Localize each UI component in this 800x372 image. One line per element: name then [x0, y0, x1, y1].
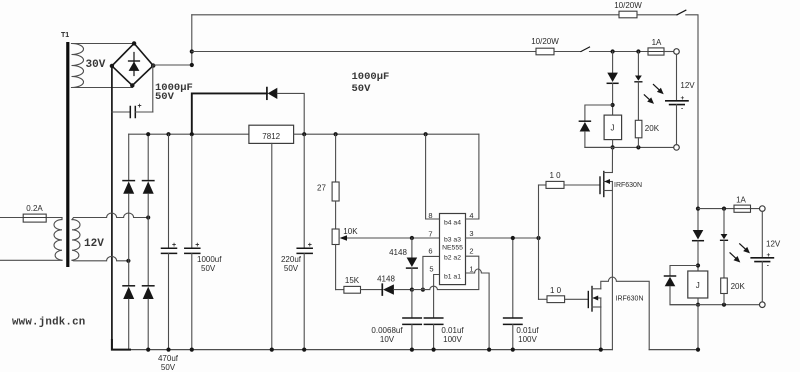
wire: fuse F2 to terminal [664, 51, 674, 53]
wire: ch2 top rail [698, 208, 760, 210]
wire: ch2 lower rail [670, 304, 760, 306]
junction bus 7812 gnd [270, 348, 274, 352]
diode D11 7812 bypass [192, 88, 304, 135]
diode D9 ch2 flyback [665, 266, 699, 305]
wire: pin7 to 10K wiper arrow [340, 235, 440, 241]
wire: gate riser vertical [538, 185, 540, 299]
junction bridge top vertex [132, 41, 136, 45]
svg-text:100V: 100V [443, 335, 462, 344]
svg-text:3: 3 [469, 229, 473, 238]
potentiometer R4 10K [332, 229, 339, 290]
resistor R5 20K ch1 [635, 120, 642, 138]
junction ch1 diode branch [611, 49, 615, 53]
junction ch2 top rail [696, 207, 700, 211]
junction pin7 node at 4148 [410, 236, 414, 240]
timer U1 NE555 [440, 214, 466, 285]
svg-text:+: + [767, 252, 771, 259]
svg-text:27: 27 [317, 184, 326, 193]
svg-text:50V: 50V [161, 363, 176, 372]
wire: +30V vertical riser [191, 15, 193, 65]
svg-text:5: 5 [429, 265, 433, 274]
wire: pin4 riser to bus [466, 134, 479, 219]
capacitor C4 220uf 50V [297, 134, 312, 349]
svg-text:+: + [195, 242, 199, 249]
wire: 12V secondary bottom lead with hop [72, 256, 128, 260]
junction bus C7 [511, 348, 515, 352]
transistor Q1 IRF630N [600, 172, 612, 197]
junction ch1 rail at 20K [636, 145, 640, 149]
capacitor C1 1000uF 50V plates [112, 103, 153, 118]
svg-text:12V: 12V [766, 240, 781, 249]
terminal ch2 negative [760, 302, 766, 308]
LED D10 emission arrows [730, 244, 750, 263]
wire: switch S1 to right corner [686, 15, 698, 209]
wire: +12V bus y134 right of 7812 [294, 133, 479, 135]
wire: relay K1 bottom lead [612, 140, 614, 148]
capacitor C5 0.0068uf 10V [403, 290, 421, 350]
svg-text:4148: 4148 [377, 275, 395, 284]
svg-text:J: J [696, 281, 700, 290]
terminal ch1 negative [674, 145, 680, 151]
wire: Q2 source to ground bus [600, 307, 602, 350]
junction bus at pin8 riser [424, 132, 428, 136]
wire: threshold node to pin2 riser with hop over pin5 [412, 256, 479, 289]
svg-text:0.2A: 0.2A [26, 204, 43, 213]
junction +30V at y51 [190, 49, 194, 53]
wire: Q1 drain to ch1 rail [611, 147, 613, 172]
svg-text:6: 6 [428, 247, 432, 256]
relay K1 coil box J [604, 115, 622, 140]
svg-text:1 0: 1 0 [550, 286, 562, 295]
junction bridge left vertex [110, 64, 114, 68]
junction bus col2 [146, 348, 150, 352]
transformer T1 core [66, 42, 69, 267]
junction bridge right vertex [151, 63, 155, 67]
svg-text:15K: 15K [345, 276, 360, 285]
junction ch1 LED branch [636, 49, 640, 53]
wire: pin1 to ground with hop over pin2 riser [466, 269, 490, 350]
diode D1 bridge column1 top [123, 134, 134, 286]
junction bus ch2 rail drop [696, 348, 700, 352]
svg-text:4148: 4148 [389, 248, 407, 257]
resistor R6 20K ch2 [721, 278, 728, 294]
resistor R7 15K [336, 286, 361, 293]
junction bus 220uf [302, 348, 306, 352]
svg-text:b1 a1: b1 a1 [444, 274, 461, 281]
junction 12V AC2 at column1 [126, 259, 130, 263]
capacitor C2 470uf 50V [162, 134, 177, 349]
battery BT1 12V ch1 [666, 54, 688, 144]
svg-text:+: + [172, 242, 176, 249]
wire: 30V bottom terminal to bridge bottom vertex [72, 86, 133, 88]
svg-text:100V: 100V [518, 335, 537, 344]
svg-text:IRF630N: IRF630N [614, 182, 642, 189]
svg-text:0.01uf: 0.01uf [441, 326, 464, 335]
svg-text:IRF630N: IRF630N [616, 296, 644, 303]
svg-text:+: + [308, 242, 312, 249]
junction bus 1000uf [190, 348, 194, 352]
wire: bridge right vertex to +30V node [153, 64, 192, 66]
resistor R9 10 lower gate [539, 296, 589, 303]
junction ch2 rail at relay [696, 303, 700, 307]
transformer 30V secondary winding [72, 44, 84, 88]
svg-text:10/20W: 10/20W [531, 37, 559, 46]
resistor R2 10/20W [536, 48, 554, 55]
svg-text:+: + [681, 95, 685, 102]
wire: 30V top terminal to bridge top vertex [72, 43, 135, 45]
svg-text:-: - [767, 263, 769, 270]
svg-text:220uf: 220uf [281, 255, 302, 264]
junction bus Q2 source [599, 348, 603, 352]
bridge rectifier B1 diamond [112, 43, 153, 85]
svg-text:b3 a3: b3 a3 [444, 237, 461, 244]
diode D4 bridge column2 bottom [143, 286, 154, 350]
svg-text:1: 1 [469, 265, 473, 274]
svg-text:J: J [611, 124, 615, 133]
capacitor C6 0.01uf 100V [424, 318, 442, 350]
wire: top charging rail y15 [192, 14, 619, 16]
wire: ground bus right segment [649, 349, 698, 351]
bridge rectifier B1 internal diode [129, 53, 140, 76]
terminal ch2 positive [760, 206, 766, 212]
diode D8 ch2 series [693, 230, 704, 271]
svg-text:50V: 50V [201, 264, 216, 273]
terminal ch1 positive [674, 49, 680, 55]
wire: cap C1 to bridge right vertex [152, 66, 154, 112]
wire: R6 to ch2 rail [723, 294, 725, 305]
diode D3 bridge column1 bottom [123, 286, 134, 350]
wire: ground bus heavy left corner [112, 340, 130, 350]
wire: Q2 drain to ch2 negative with hop over Q1 source [601, 277, 649, 350]
wire: pin8 riser to bus [426, 134, 440, 219]
junction bus pin1 [487, 348, 491, 352]
svg-text:12V: 12V [680, 81, 695, 90]
svg-text:www.jndk.cn: www.jndk.cn [12, 317, 85, 329]
LED D7 emission arrows [644, 85, 663, 104]
svg-text:50V: 50V [155, 91, 175, 103]
junction ch1 relay top [611, 103, 615, 107]
junction threshold node at 4148 [410, 288, 414, 292]
junction bus at 7812 output [302, 132, 306, 136]
wire: 7812 ground lead to bus [271, 143, 273, 349]
svg-text:1000µF: 1000µF [352, 71, 390, 83]
wire: mains bottom lead [0, 259, 62, 261]
wire: Q1 source to ground bus [611, 191, 613, 350]
svg-text:30V: 30V [86, 59, 106, 71]
svg-text:-: - [681, 106, 683, 113]
wire: R1 to switch S1 [637, 14, 677, 16]
junction bus at 27 branch [334, 132, 338, 136]
regulator U2 7812 [249, 125, 294, 143]
relay K2 coil box J [688, 271, 708, 298]
diode D5 ch1 series [607, 52, 618, 116]
transistor Q2 IRF630N [588, 287, 601, 312]
svg-text:1000uf: 1000uf [197, 255, 222, 264]
wire: pin3 output [466, 237, 539, 239]
svg-text:10V: 10V [380, 335, 395, 344]
junction +30V at y65 [190, 63, 194, 67]
svg-text:NE555: NE555 [442, 245, 463, 252]
wire: R5 to ch1 rail [637, 138, 639, 148]
resistor R1 10/20W [619, 11, 637, 18]
wire: ch2 rail to ground bus [697, 305, 699, 350]
junction bus at 470uf [166, 132, 170, 136]
switch S1 blade [677, 10, 686, 15]
svg-text:+: + [138, 103, 142, 110]
junction bus at column2 [146, 132, 150, 136]
wire: +12V bus y134 left of 7812 [129, 133, 249, 135]
junction bus C6 [432, 348, 436, 352]
diode D12 4148 horizontal [361, 284, 412, 295]
transformer primary winding [54, 218, 62, 261]
svg-text:50V: 50V [352, 83, 372, 95]
LED D7 ch1 indicator [635, 52, 642, 121]
fuse F1 0.2A mains [0, 214, 62, 222]
svg-text:b2 a2: b2 a2 [444, 255, 461, 262]
svg-text:10K: 10K [343, 227, 358, 236]
svg-text:12V: 12V [84, 238, 104, 250]
svg-text:20K: 20K [731, 282, 746, 291]
wire: ch2 feed riser right side [697, 209, 699, 230]
svg-text:20K: 20K [645, 124, 660, 133]
wire: pin6 stub [423, 256, 440, 289]
wire: switch S2 to fuse F2 [590, 51, 649, 53]
transformer 12V secondary winding [72, 220, 80, 261]
svg-text:0.01uf: 0.01uf [516, 326, 539, 335]
junction ch2 LED branch [722, 207, 726, 211]
wire: ch1 lower rail [585, 146, 674, 148]
diode D2 bridge column2 top [143, 134, 154, 286]
diode D13 4148 vertical [407, 238, 418, 290]
resistor R8 10 upper gate [539, 181, 601, 188]
svg-text:1A: 1A [652, 38, 662, 47]
svg-text:T1: T1 [61, 32, 69, 39]
capacitor C7 0.01uf 100V [504, 238, 522, 350]
wire: second charging rail y51 [192, 51, 536, 53]
svg-text:7812: 7812 [262, 132, 280, 141]
switch S2 blade [581, 47, 590, 52]
wire: 12V secondary top lead with hops [72, 213, 148, 220]
resistor R3 27 [332, 134, 339, 229]
svg-text:7: 7 [428, 230, 432, 239]
junction threshold node at pin6 drop [421, 288, 425, 292]
svg-text:2: 2 [469, 247, 473, 256]
junction 12V AC1 at column2 [146, 215, 150, 219]
wire: R2 to switch S2 [554, 51, 581, 53]
diode D6 ch1 flyback [579, 105, 612, 147]
wire: pin5 drop with hop to cap C6 [434, 275, 440, 319]
junction ch1 rail at relay [611, 145, 615, 149]
svg-text:b4 a4: b4 a4 [444, 220, 461, 227]
fuse F3 1A ch2 [734, 205, 751, 212]
wire: ground bus left segment [112, 349, 613, 351]
wire: relay K2 bottom lead [697, 298, 699, 305]
svg-text:1 0: 1 0 [549, 171, 561, 180]
svg-text:0.0068uf: 0.0068uf [371, 326, 403, 335]
junction bus at 1000uf [190, 132, 194, 136]
junction bus 470uf [166, 348, 170, 352]
LED D10 ch2 indicator [721, 209, 728, 278]
junction bridge bottom vertex [130, 83, 134, 87]
junction ch2 relay top [696, 263, 700, 267]
wire: negative rail from bridge left vertex down to ground bus [111, 66, 113, 350]
svg-text:1A: 1A [736, 196, 746, 205]
junction pin3 at gate riser [536, 236, 540, 240]
svg-text:50V: 50V [284, 264, 299, 273]
junction bus C5 [410, 348, 414, 352]
svg-text:470uf: 470uf [158, 354, 179, 363]
junction ch2 rail at 20K [722, 303, 726, 307]
fuse F2 1A [648, 48, 664, 55]
capacitor C3 1000uf 50V [185, 134, 200, 349]
battery BT2 12V ch2 [751, 211, 773, 302]
svg-text:10/20W: 10/20W [614, 1, 642, 10]
junction pin3 at cap C7 [511, 236, 515, 240]
